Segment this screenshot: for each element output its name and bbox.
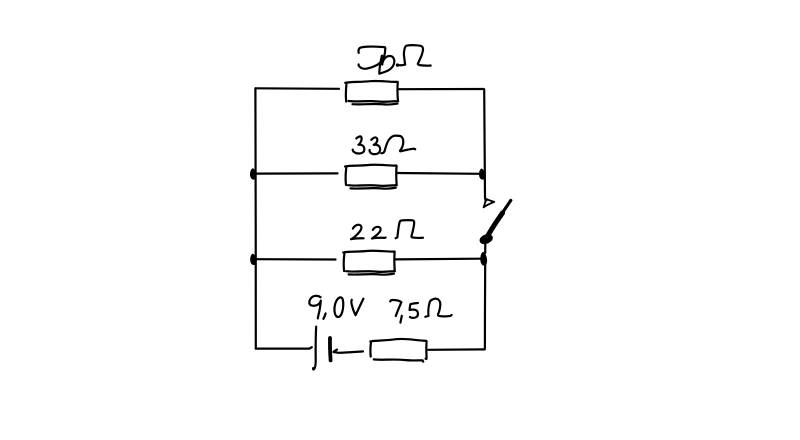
label 22ohm: digit 2 bbox=[351, 225, 364, 240]
label 9,0V: letter V bbox=[351, 299, 363, 316]
wire top-left horizontal bbox=[256, 87, 340, 90]
resistor R4 box 7.5ohm bbox=[370, 339, 426, 362]
wire battery to R4 bbox=[333, 350, 363, 353]
wire right vertical bottom bbox=[484, 264, 487, 349]
label 56ohm: digit 5 bbox=[359, 47, 386, 69]
node A left-33 bbox=[251, 169, 256, 179]
label 7,5ohm: digit 5 bbox=[410, 303, 418, 318]
label 56ohm: omega bbox=[397, 45, 431, 66]
label 56ohm: digit 6 bbox=[379, 56, 394, 74]
switch S1 blade bbox=[487, 200, 511, 236]
wire left vertical bbox=[254, 88, 257, 348]
wire switch pivot to node bbox=[484, 244, 486, 254]
label 33ohm: digit 3 bbox=[353, 136, 365, 153]
label 9,0V: comma bbox=[323, 313, 325, 318]
label 9,0V: digit 0 bbox=[334, 297, 343, 317]
label 9,0V: digit 9 bbox=[309, 296, 321, 319]
wire 33 right bbox=[397, 172, 481, 175]
node C left-22 bbox=[251, 255, 256, 265]
battery B1 short plate bbox=[328, 338, 332, 360]
wire bottom-right horizontal bbox=[428, 348, 484, 351]
wire bottom-left horizontal bbox=[256, 347, 312, 348]
label 7,5ohm: digit 7 bbox=[390, 300, 401, 316]
resistor R2 box 33ohm bbox=[345, 165, 397, 189]
label 22ohm: digit 2 second bbox=[372, 227, 386, 239]
label 7,5ohm: omega bbox=[425, 299, 451, 317]
wire top-right horizontal bbox=[399, 88, 484, 90]
wire 33 left bbox=[256, 172, 338, 174]
label 7,5ohm: comma bbox=[400, 316, 401, 323]
switch S1 contact triangle bbox=[484, 199, 495, 208]
wire 22 right bbox=[395, 258, 480, 261]
wire right vertical top bbox=[484, 90, 486, 201]
node B right-33 bbox=[480, 169, 485, 178]
wire 22 left bbox=[256, 258, 336, 260]
resistor R3 box 22ohm bbox=[343, 251, 395, 275]
switch S1 pivot blob bbox=[480, 235, 492, 244]
label 22ohm: omega bbox=[396, 220, 423, 238]
battery B1 long plate bbox=[313, 327, 316, 370]
resistor R1 box 56ohm bbox=[345, 81, 398, 105]
label 33ohm: omega bbox=[381, 136, 415, 154]
node D right-22 bbox=[481, 253, 486, 265]
label 33ohm: digit 3 second bbox=[370, 137, 381, 154]
